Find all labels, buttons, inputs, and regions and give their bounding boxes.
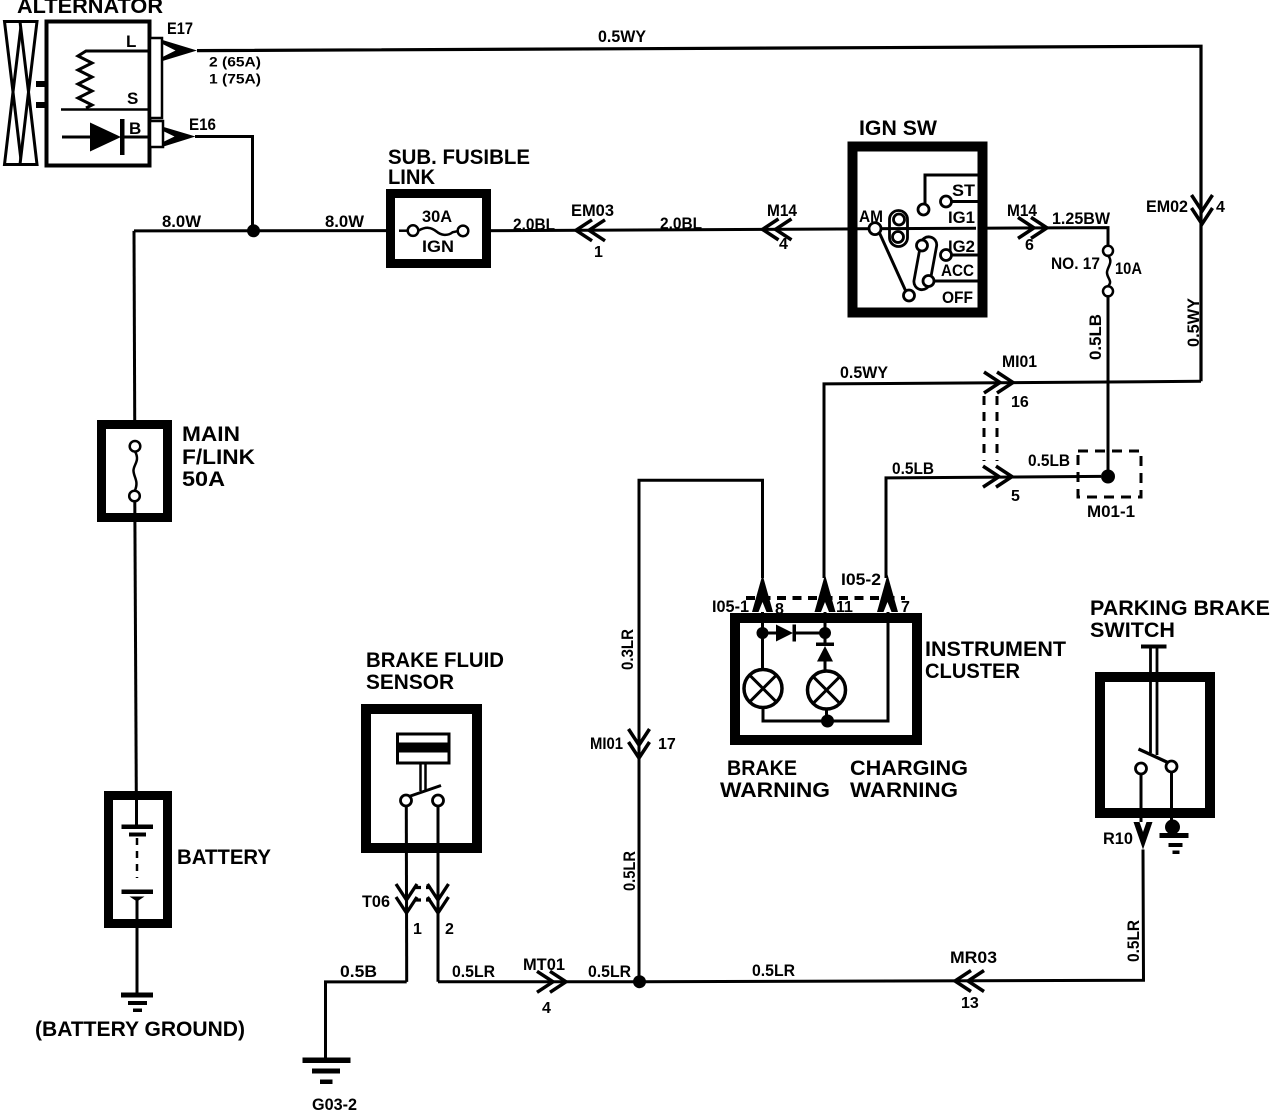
cluster diode D2 horizontal (768, 625, 825, 642)
svg-text:IGN: IGN (422, 237, 454, 256)
cluster pin 8 arrow (752, 575, 773, 613)
connector M14 pin 4 number (779, 236, 788, 253)
wire label 0.5LR vertical mid (620, 851, 639, 891)
connector EM03 pin 1 (594, 244, 603, 261)
fuse NO. 17 label (1051, 254, 1100, 273)
wire label 0.5LB left (892, 459, 934, 478)
svg-text:ALTERNATOR: ALTERNATOR (17, 0, 163, 18)
wire main f/link to battery (135, 501, 137, 795)
alternator terminal shell B (150, 121, 163, 147)
battery cells (122, 800, 154, 920)
connector T06 pin1 arrow (396, 884, 417, 913)
wire label 2.0BL left (513, 215, 555, 234)
battery title (177, 846, 271, 869)
alternator shaft bars (36, 81, 47, 108)
alternator S terminal wire (61, 108, 148, 111)
brake warning caption (720, 757, 830, 802)
svg-text:R10: R10 (1103, 829, 1133, 848)
connector M14 pin6 label (1007, 201, 1037, 220)
svg-text:BATTERY: BATTERY (177, 846, 271, 869)
wire label 0.5LR sensor (452, 962, 495, 981)
parking brake ground symbol (1160, 833, 1189, 854)
svg-text:1.25BW: 1.25BW (1052, 209, 1111, 228)
main fusible link element (129, 441, 140, 501)
cluster pin 11 arrow (815, 575, 836, 613)
wire label 0.5LR mid (588, 962, 631, 981)
brake fluid sensor float (398, 734, 450, 791)
fusible link IGN label (422, 237, 454, 256)
battery box (109, 796, 168, 924)
connector MI01 pin 5 number (1011, 488, 1020, 505)
wire label 0.5LR vertical right (1124, 920, 1143, 962)
main fusible link box (102, 425, 168, 518)
pin L label (126, 32, 136, 51)
svg-text:4: 4 (542, 1000, 551, 1017)
svg-text:0.5LR: 0.5LR (588, 962, 631, 981)
cluster pin 7 number (901, 599, 910, 616)
wire 8.0W left segment (134, 229, 408, 232)
svg-text:SENSOR: SENSOR (366, 671, 454, 694)
connector EM03 label (571, 201, 614, 220)
connector MT01 pin 4 number (542, 1000, 551, 1017)
alternator rating label 2 (65A) (209, 54, 261, 70)
cluster pin 11 number (836, 599, 853, 616)
wire label 2.0BL right (660, 214, 702, 233)
brake fluid sensor switch (401, 786, 444, 807)
wire battery to ground (136, 920, 139, 994)
wire 0.5LR parking brake down to MR03 (639, 850, 1144, 982)
svg-text:5: 5 (1011, 488, 1020, 505)
connector EM03 arrow (576, 220, 605, 241)
connector M01-1 dashed box (1078, 451, 1141, 497)
cluster node pin11 (819, 627, 831, 639)
wire 0.5LB fuse to M01-1 (1107, 296, 1110, 477)
wire E16 to junction node (195, 137, 253, 231)
svg-text:6: 6 (1025, 237, 1034, 254)
svg-text:OFF: OFF (942, 288, 973, 307)
svg-text:0.5LR: 0.5LR (752, 961, 795, 980)
svg-text:NO. 17: NO. 17 (1051, 254, 1100, 273)
svg-text:MT01: MT01 (523, 955, 565, 974)
instrument cluster connector dashed line (746, 596, 905, 600)
connector I05-1 label (712, 597, 749, 616)
svg-text:F/LINK: F/LINK (182, 446, 255, 469)
svg-text:0.5LB: 0.5LB (1028, 451, 1070, 470)
fuse NO. 17 10A (1103, 246, 1113, 296)
ground G03-2 symbol (303, 1058, 351, 1085)
svg-text:8.0W: 8.0W (162, 212, 202, 231)
connector M14 pin4 label (767, 201, 797, 220)
main f/link title (182, 423, 255, 491)
junction node 0.5LR (633, 975, 646, 988)
alternator rotor coil (78, 51, 148, 108)
svg-text:SWITCH: SWITCH (1090, 619, 1175, 642)
svg-text:MI01: MI01 (1002, 352, 1037, 371)
wire 0.5B to ground G03-2 (326, 982, 407, 1058)
connector T06 pin 2 number (445, 921, 454, 938)
wire 0.5LB to cluster pin 7 (886, 476, 1101, 578)
ign sw internal AM-IG1 wire (857, 227, 976, 230)
ign sw IG2 label (948, 237, 975, 256)
ign sw lever (880, 233, 915, 301)
cluster diode D3 vertical (816, 643, 834, 672)
connector T06 dashed bridge (414, 888, 431, 901)
connector EM02 pin 4 number (1216, 199, 1225, 216)
ign sw ST label (952, 181, 976, 200)
connector MI01 pin17 label (590, 734, 623, 753)
ground G03-2 label (312, 1095, 357, 1112)
cluster internal wire pin8 to diode (761, 612, 764, 669)
wire 0.3LR cluster pin8 branch (639, 480, 763, 981)
svg-text:WARNING: WARNING (850, 779, 958, 802)
svg-text:LINK: LINK (388, 166, 435, 189)
alternator terminal shell L/S (150, 38, 162, 118)
connector MT01 arrow (537, 971, 566, 992)
alternator diode D1 (62, 119, 150, 155)
svg-text:2.0BL: 2.0BL (660, 214, 702, 233)
connector EM02 label (1146, 197, 1188, 216)
svg-text:0.5WY: 0.5WY (840, 363, 889, 382)
sub fusible link box (391, 194, 487, 264)
ign sw AM terminal (869, 223, 881, 235)
ign sw box (853, 147, 983, 313)
connector MI01 dashed bracket (984, 396, 997, 461)
svg-text:0.5B: 0.5B (340, 962, 377, 981)
connector MI01 pin16 arrow (984, 372, 1013, 393)
wire label 0.5LB right (1028, 451, 1070, 470)
svg-text:8: 8 (775, 601, 784, 618)
svg-text:0.5LB: 0.5LB (1086, 314, 1105, 360)
connector R10 label (1103, 829, 1133, 848)
svg-text:2: 2 (445, 921, 454, 938)
svg-text:4: 4 (1216, 199, 1225, 216)
svg-text:G03-2: G03-2 (312, 1095, 357, 1112)
svg-text:EM02: EM02 (1146, 197, 1188, 216)
svg-text:IG1: IG1 (948, 208, 975, 227)
svg-text:BRAKE: BRAKE (727, 757, 797, 780)
svg-text:2 (65A): 2 (65A) (209, 54, 261, 70)
svg-text:7: 7 (901, 599, 910, 616)
wire 2.0BL / IGN SW feed segment (469, 228, 1109, 246)
svg-text:17: 17 (658, 736, 676, 753)
svg-text:ACC: ACC (941, 261, 974, 280)
wire label 0.5LB vertical (1086, 314, 1105, 360)
parking brake switch box (1100, 677, 1210, 813)
svg-text:8.0W: 8.0W (325, 212, 365, 231)
svg-text:S: S (127, 89, 138, 108)
cluster internal wire pin11 (824, 612, 827, 644)
connector MI01 pin17 arrow (629, 729, 650, 758)
svg-text:WARNING: WARNING (720, 779, 830, 802)
svg-text:CLUSTER: CLUSTER (925, 660, 1020, 683)
svg-text:AM: AM (859, 207, 883, 226)
svg-text:M14: M14 (1007, 201, 1037, 220)
svg-text:B: B (129, 119, 141, 138)
brake fluid sensor title (366, 649, 504, 694)
connector MR03 label (950, 948, 997, 967)
svg-text:IG2: IG2 (948, 237, 975, 256)
svg-text:0.5LB: 0.5LB (892, 459, 934, 478)
wire 0.5WY from E17 along top and down right side (197, 46, 1201, 381)
svg-text:1: 1 (594, 244, 603, 261)
wire 0.5WY horizontal to instrument cluster pin 11 (824, 381, 1201, 578)
connector M14 pin6 arrow (1018, 217, 1047, 238)
fusible link fuse element (399, 225, 468, 236)
ign sw title (859, 117, 937, 140)
parking brake ground node (1165, 820, 1180, 835)
wire parking brake pin to R10 (1140, 774, 1143, 822)
svg-text:13: 13 (961, 995, 979, 1012)
instrument cluster title (925, 638, 1066, 683)
connector E17 arrow (163, 40, 198, 61)
fuse 10A value (1115, 259, 1142, 278)
svg-text:0.5LR: 0.5LR (452, 962, 495, 981)
cluster pin 7 arrow (877, 575, 898, 613)
svg-text:1 (75A): 1 (75A) (209, 71, 261, 87)
wire label 0.3LR vertical (618, 629, 637, 670)
cluster common node (821, 715, 834, 728)
brake warning lamp (744, 670, 782, 708)
connector T06 label (362, 892, 390, 911)
parking brake switch contacts (1136, 749, 1178, 774)
svg-text:MR03: MR03 (950, 948, 997, 967)
alternator box (47, 22, 150, 166)
svg-text:ST: ST (952, 181, 976, 200)
connector M01-1 label (1087, 502, 1135, 521)
svg-text:IGN SW: IGN SW (859, 117, 937, 140)
connector M14 pin 6 number (1025, 237, 1034, 254)
pin B label (129, 119, 141, 138)
brake fluid sensor box (366, 709, 477, 848)
connector E17 label (167, 19, 193, 38)
fusible link value 30A (422, 207, 452, 226)
svg-text:11: 11 (836, 599, 853, 616)
pin S label (127, 89, 138, 108)
connector M14 pin4 arrow (763, 219, 792, 240)
sub fusible link title (388, 146, 530, 189)
wire sensor pin1 down (405, 806, 408, 982)
connector M01-1 node (1101, 470, 1115, 484)
svg-text:I05-1: I05-1 (712, 597, 749, 616)
wire label 0.5WY mid (840, 363, 889, 382)
svg-text:0.3LR: 0.3LR (618, 629, 637, 670)
connector EM02 arrow (1192, 195, 1213, 224)
connector MI01 pin 16 number (1011, 394, 1029, 411)
wire sensor pin2 down (437, 806, 440, 982)
connector MR03 pin 13 number (961, 995, 979, 1012)
svg-text:1: 1 (413, 921, 422, 938)
svg-text:16: 16 (1011, 394, 1029, 411)
connector MR03 arrow (955, 971, 984, 992)
ign sw IG1 label (948, 208, 975, 227)
ign sw IG2 terminal (941, 250, 979, 261)
parking brake actuator rod (1141, 647, 1167, 756)
wire label 8.0W left (162, 212, 202, 231)
svg-text:INSTRUMENT: INSTRUMENT (925, 638, 1066, 661)
wire label 0.5LR bottom (752, 961, 795, 980)
svg-text:L: L (126, 32, 136, 51)
connector R10 arrow (1134, 822, 1153, 850)
svg-text:M01-1: M01-1 (1087, 502, 1135, 521)
svg-text:PARKING BRAKE: PARKING BRAKE (1090, 597, 1270, 620)
cluster node pin8 (757, 627, 769, 639)
wire 8.0W down left side to main fusible link (133, 231, 137, 441)
svg-text:2.0BL: 2.0BL (513, 215, 555, 234)
instrument cluster box (735, 618, 917, 740)
wire label 0.5WY vertical (1184, 297, 1203, 347)
connector I05-2 label (841, 570, 881, 589)
wire label 0.5WY top (598, 27, 647, 46)
svg-text:E17: E17 (167, 19, 193, 38)
connector T06 pin 1 number (413, 921, 422, 938)
svg-text:0.5WY: 0.5WY (598, 27, 647, 46)
svg-text:MI01: MI01 (590, 734, 623, 753)
svg-text:0.5WY: 0.5WY (1184, 297, 1203, 347)
svg-text:(BATTERY GROUND): (BATTERY GROUND) (35, 1018, 245, 1041)
svg-text:M14: M14 (767, 201, 797, 220)
junction node 8.0W (247, 224, 260, 237)
ign sw OFF label (942, 288, 973, 307)
alternator title (17, 0, 163, 18)
cluster lamp common wire (763, 612, 888, 721)
svg-text:MAIN: MAIN (182, 423, 240, 446)
wire label 8.0W right (325, 212, 365, 231)
parking brake switch title (1090, 597, 1270, 642)
connector MI01 label (1002, 352, 1037, 371)
svg-text:BRAKE FLUID: BRAKE FLUID (366, 649, 504, 672)
connector MI01 pin5 arrow (983, 466, 1012, 487)
charging warning lamp (808, 671, 846, 709)
ign sw movable contact IG2-ACC (913, 235, 938, 291)
svg-text:50A: 50A (182, 468, 225, 491)
svg-text:CHARGING: CHARGING (850, 757, 968, 780)
battery ground caption (35, 1018, 245, 1041)
svg-text:30A: 30A (422, 207, 452, 226)
battery ground symbol (121, 993, 153, 1013)
svg-text:4: 4 (779, 236, 788, 253)
svg-text:10A: 10A (1115, 259, 1142, 278)
ign sw ST branch wire (918, 175, 978, 215)
wire 0.5LR sensor to junction (438, 980, 639, 983)
connector MT01 label (523, 955, 565, 974)
alternator rating label 1 (75A) (209, 71, 261, 87)
ign sw movable contact AM-IG1 (890, 211, 908, 247)
svg-text:0.5LR: 0.5LR (620, 851, 639, 891)
connector E16 arrow (162, 127, 196, 148)
svg-text:E16: E16 (189, 115, 216, 134)
wire label 1.25BW (1052, 209, 1111, 228)
ign sw ACC label (941, 261, 974, 280)
alternator pulley (5, 22, 38, 165)
connector E16 label (189, 115, 216, 134)
wire parking brake ground branch (1170, 772, 1173, 823)
ign sw ST terminal (941, 196, 979, 207)
connector T06 pin2 arrow (428, 884, 449, 913)
charging warning caption (850, 757, 968, 802)
wire label 0.5B (340, 962, 377, 981)
ign sw ACC terminal (935, 280, 979, 283)
cluster pin 8 number (775, 601, 784, 618)
svg-text:0.5LR: 0.5LR (1124, 920, 1143, 962)
svg-text:I05-2: I05-2 (841, 570, 881, 589)
connector MI01 pin 17 number (658, 736, 676, 753)
ign sw AM label (859, 207, 883, 226)
svg-text:T06: T06 (362, 892, 390, 911)
svg-text:EM03: EM03 (571, 201, 614, 220)
